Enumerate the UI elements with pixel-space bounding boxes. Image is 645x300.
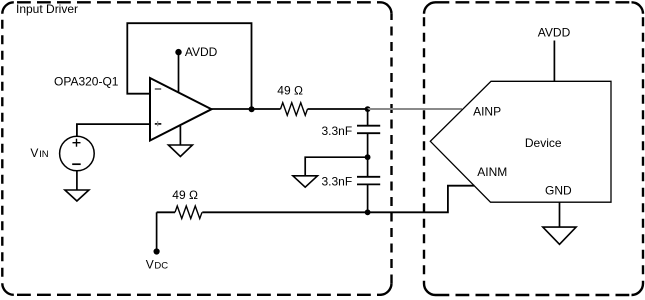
capacitor C1 3.3nF: [357, 109, 380, 157]
ground below device: [543, 227, 576, 244]
svg-text:3.3nF: 3.3nF: [322, 124, 353, 138]
AVDD pin device: [553, 41, 555, 82]
svg-text:AINP: AINP: [473, 105, 501, 119]
svg-text:VIN: VIN: [30, 146, 48, 160]
svg-text:VDC: VDC: [146, 258, 169, 272]
VDC stem wire: [156, 212, 158, 251]
svg-text:AVDD: AVDD: [185, 45, 218, 59]
svg-text:AVDD: AVDD: [538, 26, 571, 40]
node dot output: [249, 106, 255, 112]
wire node B to ground: [305, 157, 367, 176]
wire resistor to node A: [308, 108, 368, 110]
svg-text:49 Ω: 49 Ω: [277, 84, 303, 98]
svg-text:GND: GND: [545, 183, 572, 197]
device dashed box: [424, 2, 643, 295]
svg-text:49 Ω: 49 Ω: [172, 188, 198, 202]
resistor R2 lead wire: [157, 211, 175, 213]
node A dot: [365, 106, 371, 112]
bottom wire to AINM: [202, 186, 474, 213]
feedback wire: [127, 23, 251, 109]
svg-text:Input Driver: Input Driver: [16, 2, 78, 16]
node B dot: [365, 154, 371, 160]
AVDD supply op-amp: [175, 45, 217, 93]
ground below VIN: [65, 171, 89, 201]
output wire: [212, 108, 281, 110]
wire node A to AINP (gray): [368, 108, 462, 110]
ground near C2: [293, 176, 318, 187]
GND pin device: [559, 202, 561, 227]
svg-text:Device: Device: [525, 136, 562, 150]
device block: [430, 81, 611, 202]
svg-text:3.3nF: 3.3nF: [322, 174, 353, 188]
input driver dashed box: [2, 2, 391, 295]
resistor R1 49 ohm top: [281, 103, 308, 116]
resistor R2 49 ohm bottom: [175, 206, 202, 219]
svg-text:OPA320-Q1: OPA320-Q1: [54, 74, 119, 88]
wire VIN to +in: [77, 124, 150, 136]
svg-text:AINM: AINM: [477, 165, 507, 179]
VIN source V1: [60, 136, 95, 171]
op-amp U1: [150, 78, 212, 141]
ground below op-amp: [168, 126, 192, 157]
capacitor C2 3.3nF: [357, 157, 380, 212]
node C dot: [365, 209, 371, 215]
VDC dot: [154, 248, 160, 254]
